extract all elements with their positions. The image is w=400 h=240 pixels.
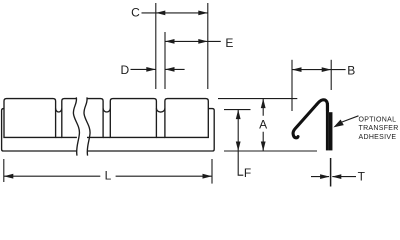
leader D right — [165, 68, 185, 70]
arrowhead B right — [322, 67, 332, 72]
finger F4 — [110, 99, 156, 138]
svg-text:B: B — [347, 63, 355, 77]
arrowhead B left — [292, 67, 302, 72]
dimension line E — [165, 40, 221, 42]
svg-text:TRANSFER: TRANSFER — [359, 125, 399, 132]
break wave right — [84, 97, 90, 155]
arrowhead A top — [261, 99, 266, 109]
arrowhead adhesive note — [333, 120, 343, 128]
finger F5 — [165, 99, 208, 138]
T leader right — [332, 176, 356, 178]
dimension line L — [4, 175, 212, 177]
slot bottom U between F3-F4 — [103, 108, 110, 112]
arrowhead T left (points right) — [320, 174, 330, 179]
svg-text:F: F — [244, 166, 251, 180]
slot bottom U between F1-F2 — [56, 108, 62, 112]
leader D left — [131, 68, 156, 70]
B extension line right — [330, 60, 332, 90]
F top tick — [224, 109, 251, 111]
bottom extension line — [224, 150, 317, 152]
B extension line left — [291, 60, 293, 111]
extension line V1 (C/D left) — [155, 3, 157, 89]
svg-text:OPTIONAL: OPTIONAL — [359, 116, 397, 123]
slot bottom U between F4-F5 — [156, 108, 165, 112]
L extension line left — [3, 159, 5, 182]
svg-text:D: D — [120, 63, 129, 77]
arrowhead L left — [4, 174, 14, 179]
bottom edge connectors across slots — [56, 136, 165, 138]
arrowhead C right — [198, 11, 208, 16]
adhesive strip (thick) — [329, 112, 333, 150]
L extension line right — [211, 159, 213, 184]
finger F2 (cut by break) — [62, 99, 77, 138]
extension line V3 (C/E right) — [207, 3, 209, 89]
arrowhead D right (points left) — [165, 67, 175, 72]
T extension line — [330, 158, 332, 187]
hook cross-section curve — [293, 100, 327, 138]
dimension line C — [142, 12, 208, 14]
finger F3 (starts at break) — [87, 99, 103, 138]
base rail outline left part — [2, 109, 77, 151]
svg-text:ADHESIVE: ADHESIVE — [359, 134, 397, 141]
svg-text:L: L — [105, 169, 112, 183]
dimension line F + leader to label — [238, 110, 243, 176]
svg-text:C: C — [131, 5, 140, 19]
arrowhead D left (points right) — [146, 67, 156, 72]
back plate — [326, 103, 329, 150]
arrowhead F bottom — [236, 142, 241, 152]
dimension line B + leader to label — [292, 69, 346, 71]
arrowhead C left — [156, 11, 166, 16]
svg-text:T: T — [358, 169, 366, 183]
extension line V2 (D right / E left) — [164, 32, 166, 89]
finger F1 — [4, 99, 56, 138]
arrowhead T right (points left) — [332, 174, 342, 179]
arrowhead A bottom — [261, 142, 266, 152]
arrowhead E right — [198, 39, 208, 44]
break wave left — [73, 97, 79, 155]
svg-text:A: A — [259, 118, 267, 132]
arrowhead E left — [165, 39, 175, 44]
adhesive note leader — [342, 116, 359, 122]
top extension line (A top) — [218, 98, 297, 100]
dimension line A (gap for label) — [262, 99, 264, 151]
svg-text:E: E — [225, 36, 233, 50]
T leader left — [311, 176, 329, 178]
base rail outline right part — [87, 109, 214, 151]
arrowhead L right — [203, 174, 213, 179]
arrowhead F top — [236, 110, 241, 120]
